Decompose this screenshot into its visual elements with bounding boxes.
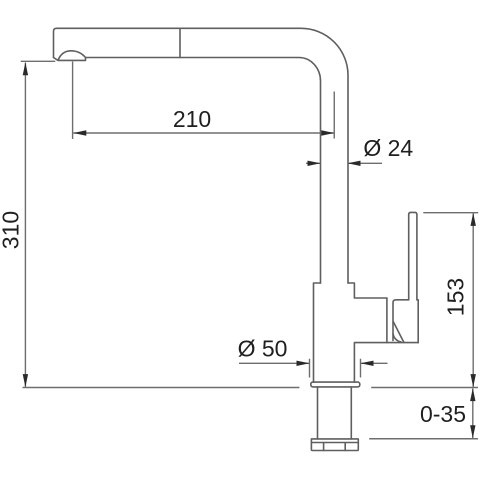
svg-text:Ø 24: Ø 24 xyxy=(363,135,413,161)
svg-text:310: 310 xyxy=(0,211,24,249)
svg-text:Ø 50: Ø 50 xyxy=(238,336,288,362)
svg-text:0-35: 0-35 xyxy=(420,401,466,427)
svg-text:210: 210 xyxy=(173,106,211,132)
svg-text:153: 153 xyxy=(443,278,469,316)
